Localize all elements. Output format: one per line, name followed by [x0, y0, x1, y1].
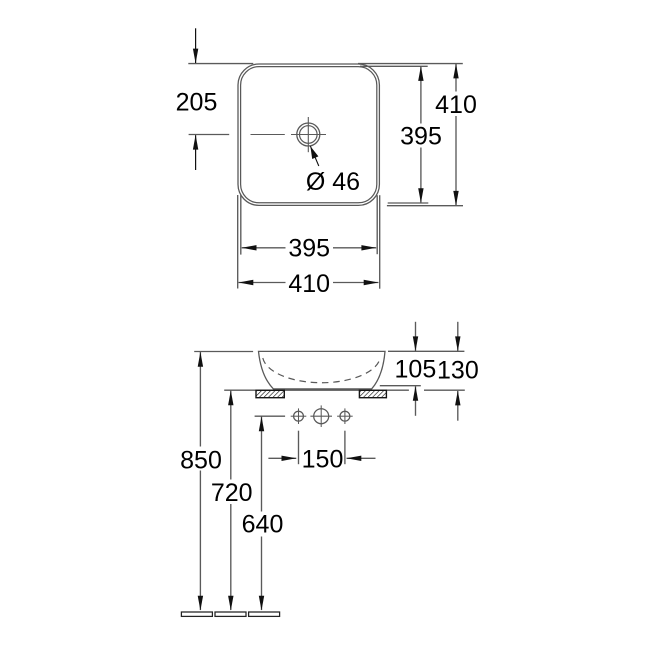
svg-text:150: 150 [302, 446, 344, 474]
svg-text:205: 205 [176, 89, 218, 117]
svg-text:640: 640 [242, 511, 284, 539]
svg-text:720: 720 [211, 479, 253, 507]
svg-text:130: 130 [437, 357, 479, 385]
svg-text:105: 105 [395, 356, 437, 384]
svg-text:Ø 46: Ø 46 [306, 168, 360, 196]
svg-text:410: 410 [288, 270, 330, 298]
svg-text:395: 395 [288, 235, 330, 263]
svg-text:850: 850 [180, 446, 222, 474]
svg-text:395: 395 [400, 122, 442, 150]
svg-text:410: 410 [435, 91, 477, 119]
